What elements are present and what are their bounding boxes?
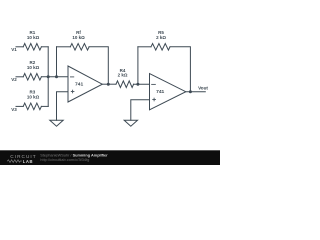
svg-text:10 kΩ: 10 kΩ — [72, 35, 85, 40]
wire to R4 — [108, 83, 116, 85]
wire bus vertical — [47, 47, 49, 107]
wire R3 to bus — [41, 105, 48, 107]
wire R5 left vertical — [137, 47, 139, 84]
footer bar — [0, 150, 220, 165]
node junction dot U2 output — [189, 90, 192, 93]
resistor Rf — [70, 44, 89, 51]
node junction dot feedback — [55, 75, 58, 78]
svg-text:10 kΩ: 10 kΩ — [27, 35, 40, 40]
wire U1 plus input to ground — [57, 92, 68, 121]
wire R1 to bus — [41, 46, 48, 48]
resistor R3 — [23, 103, 41, 110]
node junction dot bus/summing — [47, 75, 50, 78]
ground GND2 — [124, 120, 137, 126]
svg-text:2 kΩ: 2 kΩ — [118, 73, 128, 78]
svg-text:10 kΩ: 10 kΩ — [27, 65, 40, 70]
wire V2 lead — [16, 76, 23, 78]
op-amp U1 741 — [68, 66, 102, 102]
svg-text:741: 741 — [75, 81, 83, 87]
wire U1 output — [102, 83, 108, 85]
svg-text:LAB: LAB — [23, 159, 33, 164]
resistor R1 — [23, 44, 41, 51]
svg-text:V3: V3 — [11, 107, 17, 112]
wire U2 output Vout — [186, 91, 206, 93]
svg-text:V1: V1 — [11, 47, 17, 52]
node junction dot R4/R5 — [136, 83, 139, 86]
op-amp U2 741 — [150, 74, 186, 110]
wire summing row — [41, 76, 68, 78]
wire V3 lead — [16, 105, 23, 107]
wire V1 lead — [16, 46, 23, 48]
logo CircuitLab — [7, 154, 37, 164]
svg-text:Vout: Vout — [198, 85, 208, 90]
svg-text:10 kΩ: 10 kΩ — [27, 94, 40, 99]
ground GND1 — [50, 120, 63, 126]
node junction dot U1 output — [107, 83, 110, 86]
wire Rf left lead — [57, 46, 71, 48]
pin minus U2 — [151, 83, 156, 85]
svg-text:741: 741 — [156, 89, 164, 95]
svg-text:2 kΩ: 2 kΩ — [156, 35, 166, 40]
pin minus U1 — [70, 76, 74, 78]
resistor R4 — [116, 81, 134, 88]
wire U2 plus input to ground — [131, 100, 150, 121]
wire feedback up — [56, 47, 58, 77]
pin plus U2 — [152, 99, 156, 101]
wire R4 to U2 — [134, 83, 150, 85]
pin plus U1 — [71, 91, 75, 93]
wire R5 left lead — [138, 46, 151, 48]
resistor R2 — [23, 74, 41, 81]
wire R5 right lead — [170, 47, 190, 92]
svg-text:http://circuitlab.com/c/3f34fg: http://circuitlab.com/c/3f34fg — [40, 157, 89, 162]
resistor R5 — [151, 44, 170, 51]
wire Rf right lead — [89, 47, 108, 84]
svg-text:V2: V2 — [11, 77, 17, 82]
